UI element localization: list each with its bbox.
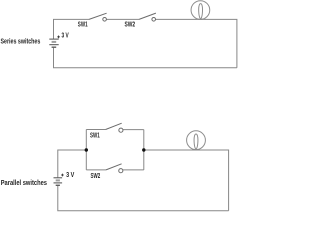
svg-text:3 V: 3 V — [66, 172, 74, 179]
wire battery to left node — [58, 150, 87, 177]
node B junction dot — [142, 148, 145, 151]
wire between SW1 and SW2 — [105, 18, 139, 20]
svg-text:Series switches: Series switches — [1, 39, 41, 46]
wire SW2 to top-right corner and right side down — [154, 19, 237, 67]
switch SW1 (bottom) contact circle — [119, 128, 123, 132]
wire top circuit bottom — [54, 47, 237, 67]
switch SW2 contact circle — [152, 18, 156, 22]
wire top branch right segment — [121, 129, 144, 131]
svg-text:Parallel switches: Parallel switches — [1, 180, 47, 187]
wire top circuit top-left segment — [54, 19, 90, 39]
svg-text:SW1: SW1 — [78, 22, 88, 29]
switch SW1 (bottom circuit) lever — [106, 123, 122, 129]
wire bottom branch left segment — [86, 169, 106, 171]
svg-text:SW2: SW2 — [91, 173, 101, 180]
wire right branch vertical — [143, 130, 145, 170]
svg-text:SW1: SW1 — [90, 133, 100, 140]
wire left branch vertical — [85, 130, 87, 170]
wire bottom branch right segment — [121, 169, 144, 171]
switch SW2 (bottom) contact circle — [119, 169, 123, 173]
switch SW2 (top circuit) lever — [139, 13, 156, 19]
svg-text:SW2: SW2 — [125, 22, 136, 29]
node A junction dot — [85, 148, 88, 151]
switch SW2 (bottom circuit) lever — [106, 164, 122, 170]
lamp L1 (top circuit) — [191, 1, 210, 20]
wire right node to right side down — [144, 150, 229, 211]
switch SW1 (top circuit) lever — [89, 13, 107, 19]
battery B2 (3 V, bottom circuit) — [54, 178, 63, 186]
lamp L2 (bottom circuit) — [187, 131, 206, 150]
battery B1 (3 V, top circuit) — [49, 39, 58, 47]
switch SW1 contact circle — [103, 18, 107, 22]
svg-text:3 V: 3 V — [62, 33, 69, 40]
label + (top battery) — [57, 36, 60, 39]
wire top branch left segment — [86, 129, 105, 131]
label + (bottom battery) — [61, 174, 64, 177]
wire bottom of bottom circuit — [58, 185, 229, 210]
